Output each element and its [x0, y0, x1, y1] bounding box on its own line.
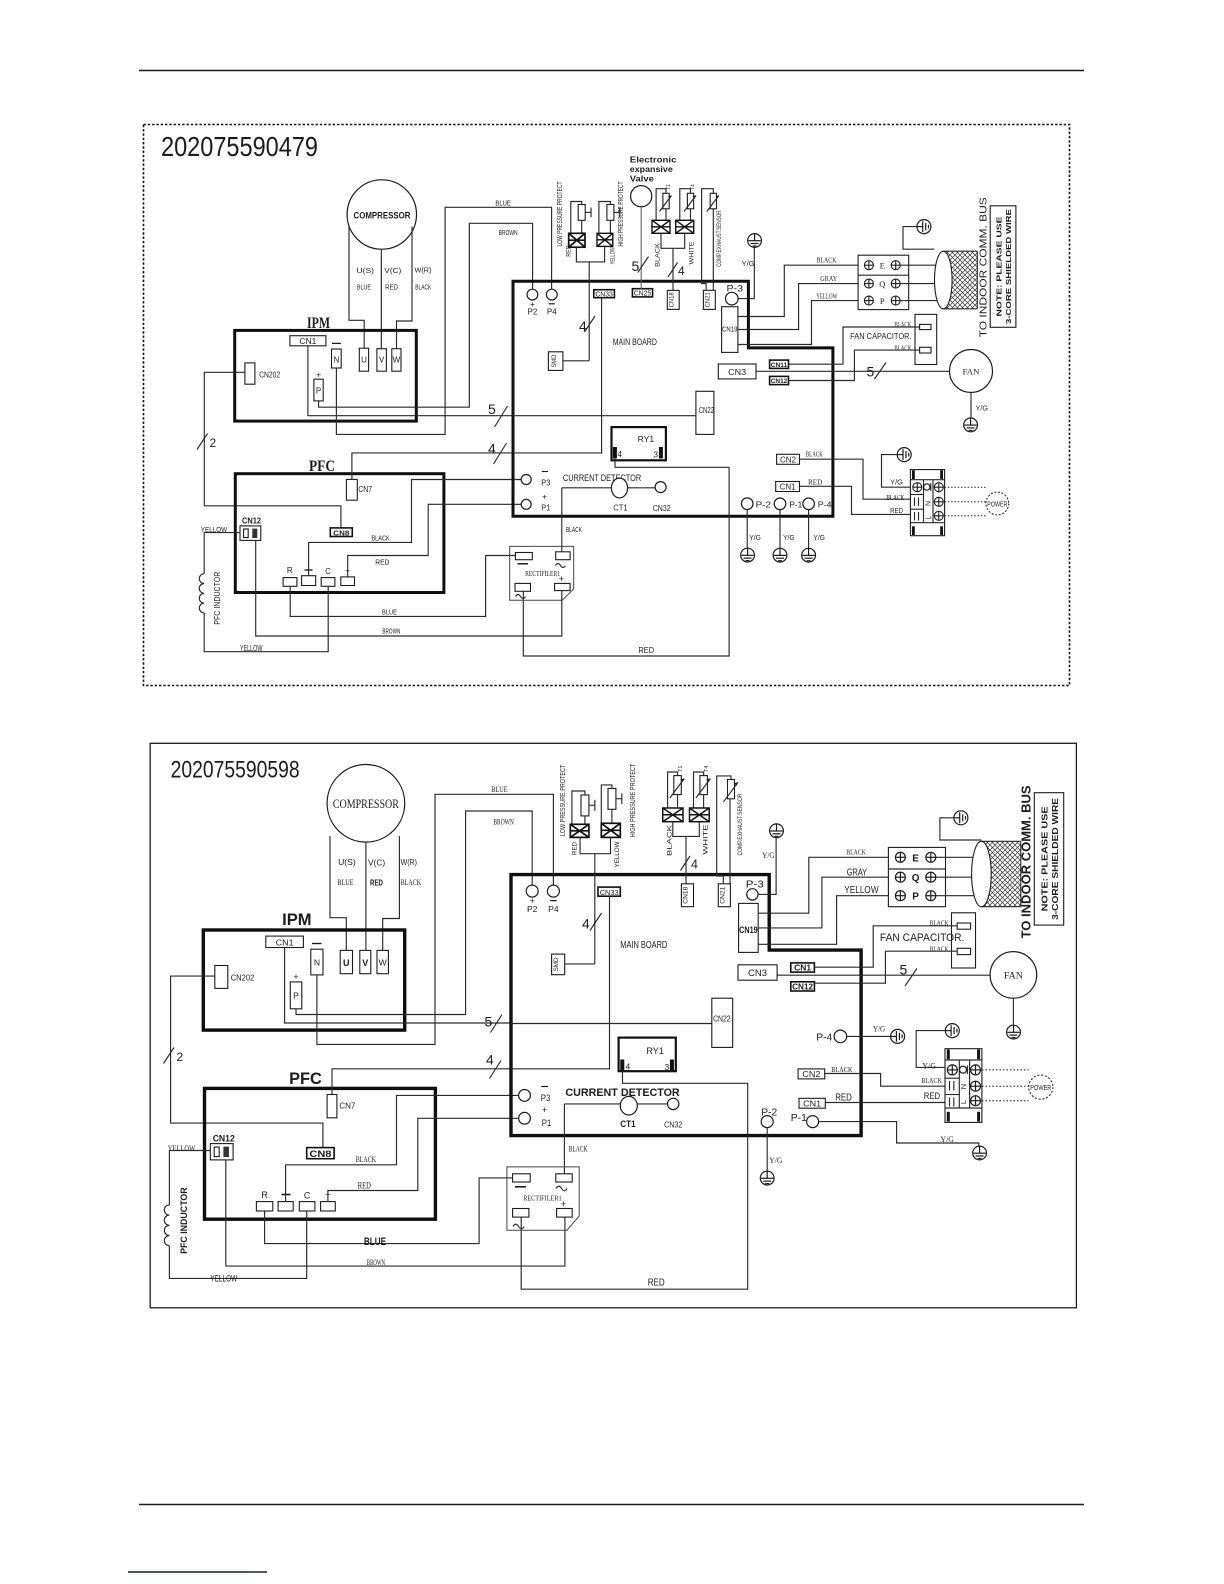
rectifier RECTIFILER1	[507, 1167, 579, 1230]
svg-text:P3: P3	[541, 478, 550, 487]
wire rectifier plus to CN12 brown	[256, 540, 562, 636]
relay RY1	[612, 427, 666, 460]
wire low pressure switch to connector	[571, 202, 582, 234]
wire compressor W(R) black	[383, 836, 400, 950]
svg-text:BLACK: BLACK	[894, 322, 911, 329]
wire high pressure switch to connector	[599, 202, 611, 234]
wire T1 to black connector	[656, 189, 666, 221]
svg-text:RECTIFILER1: RECTIFILER1	[523, 1194, 562, 1203]
wire P to P2 brown	[319, 223, 533, 407]
svg-text:RED: RED	[375, 558, 389, 567]
terminal R (PFC)	[256, 1190, 272, 1211]
svg-text:COMP.EXHAUST.SENSOR: COMP.EXHAUST.SENSOR	[737, 793, 744, 855]
svg-text:P1: P1	[542, 1118, 552, 1128]
svg-text:CN2: CN2	[802, 1069, 820, 1079]
svg-text:COMP.EXHAUST.SENSOR: COMP.EXHAUST.SENSOR	[717, 210, 723, 267]
svg-text:CN22: CN22	[713, 1014, 731, 1024]
svg-text:CN7: CN7	[358, 485, 372, 494]
svg-text:RED: RED	[924, 1091, 940, 1102]
svg-text:RED: RED	[808, 477, 823, 486]
svg-text:BLACK: BLACK	[894, 346, 911, 353]
wire P-2 to ground	[766, 1128, 768, 1172]
svg-text:CN33: CN33	[595, 291, 613, 298]
connector CN19	[722, 307, 738, 353]
wire CN1 to power terminal red	[825, 1102, 945, 1104]
ground Y/G (P-2)	[760, 1156, 782, 1185]
svg-text:P-1: P-1	[789, 500, 802, 510]
wire CN3 to fan 5-core	[777, 974, 990, 976]
svg-text:+: +	[542, 492, 547, 502]
wire CN202 to CN8 2-core	[204, 372, 341, 528]
note box 3-core shielded wire	[990, 206, 1016, 327]
svg-text:CN2: CN2	[780, 456, 796, 465]
svg-text:BLACK: BLACK	[415, 283, 431, 292]
wire CT1 to rectifier black	[563, 1104, 565, 1174]
fan capacitor C1	[850, 314, 937, 364]
svg-text:LOW PRESSURE PROTECT: LOW PRESSURE PROTECT	[557, 181, 564, 247]
connector white (crossed box)	[690, 808, 710, 822]
connector CN1 (power)	[776, 482, 800, 492]
svg-text:3-CORE SHIELDED WIRE: 3-CORE SHIELDED WIRE	[1004, 209, 1013, 324]
svg-text:P-3: P-3	[727, 284, 744, 294]
wire CN19 yellow to terminal P	[738, 301, 858, 345]
wire CN7 to main board 4-core	[352, 453, 513, 480]
label U(S) BLUE	[337, 858, 356, 887]
svg-text:E: E	[912, 853, 919, 864]
svg-text:U: U	[343, 958, 350, 968]
svg-text:POWER: POWER	[1030, 1083, 1051, 1092]
wire sensors to CN18 4-core	[661, 233, 685, 290]
wire T2 to white connector	[694, 772, 704, 808]
wire compressor U(S) blue	[349, 226, 364, 348]
svg-text:TO INDOOR COMM. BUS: TO INDOOR COMM. BUS	[978, 197, 990, 337]
wire CN19 gray to terminal Q	[758, 877, 888, 928]
svg-text:YELLOW: YELLOW	[210, 1274, 237, 1284]
bundle mark 5	[485, 1014, 503, 1033]
power terminal block (mains)	[945, 1049, 982, 1123]
svg-text:POWER: POWER	[987, 502, 1007, 509]
svg-text:P-4: P-4	[818, 500, 832, 510]
svg-text:FAN: FAN	[963, 367, 980, 377]
wires terminal block to shielded cable	[936, 857, 982, 895]
svg-text:4: 4	[582, 916, 590, 932]
svg-text:V: V	[362, 958, 368, 968]
connector low pressure (crossed box)	[569, 233, 585, 247]
low pressure protect switch S1	[558, 764, 595, 836]
svg-text:YELLOW: YELLOW	[610, 247, 617, 264]
label V(C) RED	[368, 859, 385, 888]
POWER source	[986, 492, 1009, 515]
svg-text:BROWN: BROWN	[367, 1257, 386, 1267]
connector black (crossed box)	[663, 808, 683, 822]
svg-text:Electronic: Electronic	[630, 156, 677, 165]
ground Y/G (P-4)	[873, 1024, 905, 1043]
svg-text:CN1: CN1	[803, 1099, 821, 1109]
wire P-2 to ground	[746, 510, 748, 549]
svg-text:TO INDOOR COMM. BUS: TO INDOOR COMM. BUS	[1019, 785, 1034, 938]
node P-3	[746, 879, 765, 900]
wire PFC minus to P3 black	[309, 480, 522, 576]
node P2	[527, 289, 538, 316]
svg-text:U(S): U(S)	[357, 266, 375, 275]
svg-text:N: N	[926, 501, 933, 506]
svg-text:CN18: CN18	[669, 292, 675, 308]
connector CN11	[770, 360, 789, 369]
wire P-3 to ground	[758, 838, 776, 895]
diagram 2 border	[150, 743, 1076, 1308]
svg-text:RED: RED	[639, 645, 655, 655]
svg-text:CN18: CN18	[683, 886, 690, 903]
connector CN1 (power)	[799, 1098, 825, 1108]
svg-text:BLUE: BLUE	[382, 607, 397, 616]
svg-text:CN33: CN33	[600, 888, 619, 897]
svg-text:YELLOW: YELLOW	[168, 1144, 195, 1153]
dotted leads to POWER	[982, 1070, 1029, 1101]
svg-text:+: +	[542, 1105, 547, 1115]
svg-text:SMD: SMD	[551, 354, 558, 367]
svg-text:Y/G: Y/G	[813, 535, 825, 542]
wire PFC minus to P3 black	[286, 1095, 519, 1201]
svg-text:E: E	[880, 261, 885, 271]
svg-text:BLUE: BLUE	[495, 199, 511, 208]
thermistor T3 comp exhaust sensor	[724, 780, 739, 802]
svg-text:W: W	[393, 356, 401, 365]
label U(S) BLUE	[357, 266, 375, 292]
terminal minus (PFC)	[302, 570, 316, 586]
svg-text:5: 5	[867, 364, 875, 380]
page bottom rule	[139, 1504, 1084, 1506]
ground Y/G (power)	[890, 448, 911, 487]
svg-text:MAIN BOARD: MAIN BOARD	[613, 337, 657, 348]
svg-text:BLACK: BLACK	[831, 1065, 853, 1074]
svg-text:RED: RED	[648, 1278, 665, 1289]
wire fan to ground	[1012, 998, 1014, 1025]
svg-text:BROWN: BROWN	[382, 627, 400, 636]
bundle mark 4 (sensors)	[681, 856, 699, 872]
wire fan to ground	[970, 393, 972, 418]
svg-text:RED: RED	[370, 879, 383, 888]
node P-3	[726, 284, 744, 305]
svg-text:Q: Q	[879, 279, 885, 289]
svg-text:CN22: CN22	[699, 406, 715, 415]
node P-1	[791, 1112, 819, 1128]
svg-text:CN19: CN19	[739, 925, 758, 936]
svg-text:SMD: SMD	[553, 957, 560, 971]
thermistor T1	[660, 184, 672, 212]
svg-text:CT1: CT1	[620, 1119, 635, 1129]
node P-4	[816, 1030, 847, 1043]
main board 1 outline	[513, 281, 833, 516]
svg-text:3: 3	[665, 1062, 670, 1072]
wire pressure protects join	[580, 837, 610, 853]
ground Y/G (power)	[922, 1024, 959, 1071]
svg-text:PFC INDUCTOR: PFC INDUCTOR	[213, 572, 222, 625]
svg-text:RECTIFILER1: RECTIFILER1	[525, 570, 560, 578]
svg-text:BLUE: BLUE	[491, 785, 507, 794]
terminal W (IPM)	[392, 349, 401, 372]
svg-text:Y/G: Y/G	[742, 259, 755, 268]
svg-text:LOW PRESSURE PROTECT: LOW PRESSURE PROTECT	[558, 764, 567, 836]
fan capacitor C1	[880, 913, 976, 968]
terminal plus (PFC)	[321, 1190, 336, 1211]
terminal U (IPM)	[359, 348, 368, 371]
svg-text:P-4: P-4	[816, 1031, 832, 1043]
svg-text:IPM: IPM	[282, 911, 311, 929]
svg-text:PFC INDUCTOR: PFC INDUCTOR	[179, 1187, 190, 1254]
wire compressor U(S) blue	[330, 836, 346, 950]
svg-text:RY1: RY1	[646, 1046, 664, 1056]
node P1	[521, 492, 551, 513]
wire CN1 to main board 5-core	[308, 346, 513, 416]
svg-text:Y/G: Y/G	[922, 1062, 936, 1071]
svg-text:BLACK: BLACK	[401, 878, 422, 887]
svg-text:HIGH PRESSURE PROTECT: HIGH PRESSURE PROTECT	[628, 763, 637, 837]
svg-text:5: 5	[485, 1014, 493, 1030]
svg-text:CN202: CN202	[231, 974, 255, 983]
ground (shield)	[903, 220, 934, 250]
connector CN1 (IPM)	[266, 936, 304, 947]
svg-text:Y/G: Y/G	[890, 477, 903, 486]
wire P-4 to ground	[847, 1035, 891, 1037]
svg-text:P: P	[293, 991, 299, 1001]
connector low pressure (crossed box)	[570, 824, 589, 837]
svg-text:R: R	[287, 566, 293, 575]
low pressure protect switch S1	[557, 181, 591, 247]
wire pressure protects to SMD 4-core	[576, 246, 604, 360]
svg-text:3-CORE SHIELDED WIRE: 3-CORE SHIELDED WIRE	[1051, 797, 1060, 920]
svg-text:NOTE: PLEASE USE: NOTE: PLEASE USE	[995, 217, 1004, 317]
svg-text:Valve: Valve	[630, 175, 655, 184]
relay RY1	[619, 1038, 676, 1072]
wire T1 to black connector	[668, 772, 678, 808]
svg-text:L: L	[959, 1100, 968, 1104]
svg-text:+: +	[561, 1199, 567, 1210]
terminal N (IPM)	[332, 343, 342, 368]
svg-text:BLACK: BLACK	[654, 242, 661, 267]
wire CN19 yellow to terminal P	[758, 896, 888, 945]
wire compressor V(C) red	[380, 249, 382, 349]
bundle mark 4 (sensors)	[668, 263, 685, 279]
wire compressor W(R) black	[397, 227, 413, 349]
terminal V (IPM)	[377, 349, 387, 372]
terminal block E Q P	[858, 255, 909, 309]
wire 5-core to CN22	[511, 1023, 712, 1025]
svg-text:T1: T1	[666, 184, 672, 190]
wire RY1 pin4 to rectifier red	[521, 1071, 748, 1290]
shielded cable to indoor unit	[972, 841, 1021, 906]
svg-text:P-2: P-2	[756, 500, 771, 510]
svg-text:5: 5	[900, 962, 908, 978]
ground Y/G (P-1)	[973, 1146, 987, 1160]
svg-text:CN8: CN8	[333, 528, 349, 537]
shielded cable to indoor unit	[935, 251, 978, 309]
svg-text:4: 4	[486, 1052, 494, 1068]
POWER source	[1029, 1075, 1053, 1099]
connector CN33	[594, 290, 615, 299]
svg-text:C: C	[325, 567, 331, 576]
wire P-3 to ground	[738, 248, 754, 299]
current transformer CT1	[611, 478, 628, 512]
svg-text:CN19: CN19	[722, 327, 738, 334]
svg-text:BROWN: BROWN	[493, 818, 513, 827]
ground Y/G (P-2)	[741, 535, 761, 562]
node P-4	[803, 498, 832, 510]
page top rule	[139, 70, 1084, 72]
svg-text:GRAY: GRAY	[847, 867, 868, 878]
wire CN1 to main board 5-core	[285, 948, 511, 1024]
wire N to P4 blue	[336, 207, 551, 434]
svg-text:BLACK: BLACK	[356, 1155, 376, 1164]
fan motor FAN	[990, 952, 1037, 999]
connector CN7	[346, 479, 372, 500]
ground Y/G (fan)	[964, 404, 989, 432]
svg-text:YELLOW: YELLOW	[614, 841, 621, 868]
svg-text:T4: T4	[704, 766, 710, 772]
connector CN22	[712, 998, 733, 1047]
svg-text:CN21: CN21	[719, 886, 726, 903]
svg-text:+: +	[559, 574, 564, 584]
svg-text:Y/G: Y/G	[762, 851, 775, 860]
svg-text:RY1: RY1	[638, 434, 655, 444]
thermistor T1	[670, 766, 685, 798]
ground Y/G (P-4)	[802, 535, 825, 562]
svg-text:Y/G: Y/G	[940, 1134, 954, 1144]
footnote rule	[128, 1571, 267, 1573]
svg-text:P: P	[316, 387, 321, 396]
wire rectifier minus to PFC R blue	[290, 556, 515, 617]
svg-text:P4: P4	[548, 904, 559, 914]
note box 3-core shielded wire	[1034, 793, 1063, 925]
wire CN12 to PFC inductor	[169, 1151, 306, 1279]
svg-text:RED: RED	[566, 245, 573, 257]
svg-text:BLACK: BLACK	[371, 533, 389, 542]
svg-text:202075590598: 202075590598	[171, 757, 300, 784]
svg-text:CN32: CN32	[653, 504, 671, 513]
ground Y/G (P-3)	[742, 234, 762, 268]
inductor PFC INDUCTOR L1	[164, 1187, 190, 1254]
IPM module U1	[235, 315, 417, 421]
wire CN1 to power terminal red	[800, 486, 911, 514]
svg-text:RED: RED	[890, 506, 903, 515]
connector CN7	[327, 1095, 356, 1118]
svg-text:4: 4	[691, 858, 698, 872]
svg-text:CN7: CN7	[339, 1101, 355, 1111]
wire CN3 to fan 5-core	[756, 370, 950, 372]
svg-text:4: 4	[626, 1062, 631, 1072]
terminal U (IPM)	[340, 950, 352, 973]
connector CN8	[307, 1148, 334, 1160]
svg-text:FAN CAPACITOR.: FAN CAPACITOR.	[880, 932, 965, 944]
svg-text:L: L	[926, 515, 933, 519]
wire CN33 to CN7 4-core	[513, 298, 602, 453]
wire power block to ground y/g	[916, 1031, 945, 1068]
svg-text:CN25: CN25	[634, 291, 652, 298]
connector CN21	[703, 290, 715, 309]
svg-text:C: C	[304, 1191, 311, 1201]
bundle mark 5	[488, 401, 508, 427]
bundle mark 2	[197, 434, 217, 451]
bundle mark 4	[488, 441, 507, 465]
connector CN25	[632, 289, 652, 298]
svg-text:COMPRESSOR: COMPRESSOR	[333, 797, 400, 811]
wire CN202 to CN8 2-core	[171, 976, 323, 1148]
main board 2 outline	[511, 875, 861, 1136]
bundle mark 2	[164, 1048, 184, 1065]
svg-text:BROWN: BROWN	[499, 228, 518, 237]
PFC module U2	[205, 1069, 436, 1219]
svg-text:CN1: CN1	[276, 937, 294, 947]
svg-text:CN202: CN202	[259, 371, 280, 380]
terminal N (IPM)	[311, 944, 323, 975]
wire CN12 to fan capacitor black	[789, 350, 920, 380]
svg-text:Y/G: Y/G	[976, 404, 989, 413]
svg-text:W(R): W(R)	[401, 858, 418, 867]
svg-text:RED: RED	[571, 842, 578, 855]
wire rectifier minus to PFC R blue	[265, 1178, 513, 1244]
svg-text:P2: P2	[528, 308, 538, 317]
connector white (crossed box)	[676, 220, 694, 233]
connector CN2	[777, 454, 800, 464]
wire power block to ground y/g	[882, 455, 911, 488]
svg-text:CN21: CN21	[705, 292, 711, 308]
wire CT1 to rectifier black	[561, 488, 563, 552]
node P-1	[774, 498, 802, 510]
svg-text:BLACK: BLACK	[569, 1145, 588, 1154]
wire rectifier plus to CN12 brown	[226, 1160, 565, 1266]
svg-text:N: N	[334, 356, 340, 365]
terminal C (PFC)	[299, 1191, 315, 1211]
diagram 1 dashed border	[144, 125, 1070, 686]
svg-text:P: P	[912, 892, 919, 903]
wire RY1 pin4 to rectifier red	[523, 458, 729, 656]
svg-text:PFC: PFC	[289, 1069, 322, 1088]
connector CN32	[664, 1098, 683, 1129]
label V(C) RED	[384, 266, 402, 292]
thermistor T2	[696, 766, 711, 798]
svg-text:FAN CAPACITOR.: FAN CAPACITOR.	[850, 332, 912, 341]
svg-text:YELLOW: YELLOW	[240, 644, 263, 653]
wire CT1 to CN32	[564, 1103, 667, 1105]
wire CN19 black to terminal E	[758, 857, 888, 913]
svg-text:CN1: CN1	[299, 337, 317, 346]
svg-text:MAIN BOARD: MAIN BOARD	[620, 940, 667, 951]
svg-text:Y/G: Y/G	[783, 535, 795, 542]
wire T2 to white connector	[680, 189, 691, 221]
svg-text:BLACK: BLACK	[566, 525, 582, 534]
wire CN2 to power terminal black	[800, 459, 911, 499]
bundle mark 4 (SMD)	[579, 316, 595, 334]
svg-text:V(C): V(C)	[384, 266, 402, 275]
wire PFC plus to P1 red	[328, 1118, 519, 1201]
node P2	[526, 885, 538, 914]
connector CN12 (main board)	[770, 376, 789, 385]
connector CN1 (fan)	[791, 963, 815, 973]
svg-text:expansive: expansive	[630, 165, 674, 174]
thermistor T2	[684, 184, 696, 212]
svg-text:P-1: P-1	[791, 1112, 807, 1124]
svg-text:GRAY: GRAY	[820, 274, 837, 283]
svg-text:+: +	[316, 370, 321, 380]
connector SMD	[552, 954, 595, 975]
PFC module U2	[235, 458, 444, 593]
connector CN12 (PFC)	[210, 1134, 235, 1160]
svg-text:Q: Q	[912, 873, 920, 884]
svg-text:BLACK: BLACK	[846, 848, 866, 857]
svg-text:2: 2	[177, 1050, 184, 1064]
connector CN8	[330, 528, 352, 537]
terminal W (IPM)	[377, 950, 388, 973]
svg-text:P-3: P-3	[746, 879, 765, 890]
